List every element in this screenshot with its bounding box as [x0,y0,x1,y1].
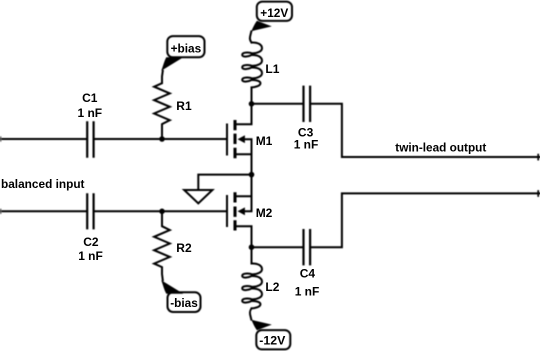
+12V box [257,2,292,21]
wire L1 top to +12V tail [250,32,252,43]
node dot mid [249,172,255,178]
svg-text:1 nF: 1 nF [78,106,103,120]
svg-text:1 nF: 1 nF [294,138,319,152]
transistor M2 channel bars [233,192,236,230]
capacitor C4 [304,229,311,265]
transistor M1 channel bars [233,120,236,158]
wire top input right segment [95,138,226,140]
M2 source wire (top) [236,195,251,197]
svg-text:1 nF: 1 nF [295,285,320,299]
wire node A to C3 [252,103,303,105]
node dot R2/input [159,209,165,215]
M1 body arrow [238,135,245,143]
node A dot [249,101,255,107]
svg-text:C1: C1 [82,91,98,105]
-bias callout tail [161,280,183,294]
svg-text:-bias: -bias [170,296,198,310]
svg-text:C2: C2 [83,235,99,249]
M1 source wire [236,153,251,155]
wire node B to C4 [252,246,303,248]
svg-text:C4: C4 [300,267,316,281]
ground branch wire [198,175,251,190]
wire M1 source to M2 source [251,154,253,196]
capacitor C2 [87,193,93,229]
svg-text:+bias: +bias [171,41,202,55]
svg-text:M2: M2 [256,206,273,220]
capacitor C1 [87,121,93,157]
terminal tick input bottom [0,209,2,213]
inductor L2 [242,263,262,308]
terminal tick input top [0,137,2,141]
+12V callout tail [251,21,271,32]
wire bottom input right segment [95,210,226,212]
svg-text:R2: R2 [176,241,192,255]
wire top input left segment [0,138,86,140]
svg-text:-12V: -12V [259,333,285,347]
wire L1 to node A [251,88,253,105]
+bias box [167,36,204,57]
transistor M1 gate line [226,124,228,156]
svg-text:R1: R1 [176,99,192,113]
svg-text:L2: L2 [265,280,279,294]
M2 drain wire (bottom) [236,226,251,247]
svg-text:balanced input: balanced input [1,177,85,191]
capacitor C3 [304,86,311,122]
+bias callout tail [161,57,183,71]
ground symbol [184,190,212,203]
resistor R2 [154,211,170,280]
wire C4 to output bottom [311,193,540,247]
inductor L1 [242,42,262,87]
svg-text:L1: L1 [265,62,279,76]
svg-text:twin-lead output: twin-lead output [395,140,486,154]
M2 body wire [245,196,252,211]
svg-text:1 nF: 1 nF [78,249,103,263]
-12V callout tail [251,320,271,331]
-bias box [168,292,201,312]
transistor M2 gate line [226,195,228,227]
M1 body wire [245,139,252,154]
wire C3 to output top [311,104,540,157]
wire M2 drain to node B [251,247,253,263]
-12V box [256,330,290,349]
node B dot [249,244,255,250]
svg-text:+12V: +12V [260,6,288,20]
M1 drain wire [236,104,251,124]
M2 body arrow [238,207,245,215]
wire L2 bottom to -12V tail [250,309,252,320]
terminal tick output bottom [537,191,539,196]
node dot R1/input [159,136,165,142]
resistor R1 [154,71,170,139]
wire bottom input left segment [0,210,86,212]
svg-text:M1: M1 [256,134,273,148]
terminal tick output top [537,155,539,160]
